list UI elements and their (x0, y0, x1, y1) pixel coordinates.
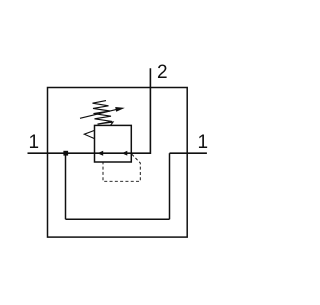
adjustment arrow (80, 107, 125, 118)
flow arrowhead left (97, 151, 103, 156)
svg-text:1: 1 (29, 132, 40, 153)
svg-text:1: 1 (198, 132, 209, 153)
vent triangle (84, 130, 94, 138)
enclosure frame (48, 88, 188, 238)
junction node on inlet (63, 151, 68, 156)
adjustment spring (93, 101, 114, 126)
wire: port 1 outlet line (right) (170, 152, 207, 154)
wire: bypass up segment (169, 153, 171, 219)
wire: flow path through regulator (95, 152, 132, 154)
wire: regulated output riser to port 2 (131, 68, 150, 153)
wire: bypass bottom segment (66, 218, 170, 220)
flow arrowhead right (122, 151, 128, 156)
pilot line (dashed) (103, 154, 140, 181)
svg-text:2: 2 (157, 62, 168, 83)
pressure regulator body (95, 125, 132, 162)
wire: port 1 inlet line (left) (28, 152, 95, 154)
wire: bypass down segment (65, 153, 67, 219)
